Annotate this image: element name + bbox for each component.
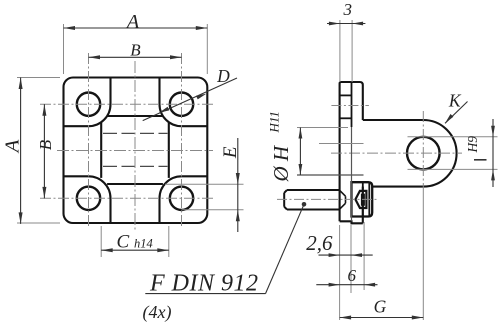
extension 2,6 left [339,225,341,320]
dimension G [340,317,424,319]
hole bottom-left [77,187,100,210]
plate outline [64,78,208,224]
dimension H9 right [492,119,494,187]
svg-text:6: 6 [348,266,357,285]
centerline vertical left hole column [88,53,90,227]
dimension 2,6 [319,254,373,256]
svg-text:3: 3 [342,0,352,19]
boss top-left [64,78,111,127]
extension line A left bottom [17,222,60,224]
svg-text:(4x): (4x) [143,302,172,323]
screw shank [284,190,339,210]
hole bottom-right [170,187,193,210]
leader K [445,102,468,124]
leaf internal vertical (plate back) upper [351,82,353,127]
dimension E [237,138,239,232]
screw head outline [352,182,373,216]
central square top edge [107,115,163,117]
dimension A horizontal [64,27,208,29]
centerline horizontal top hole row [40,103,213,105]
head face line [362,182,364,216]
centerline horizontal middle [57,150,213,152]
boss bottom-left [64,176,111,223]
extension line E top [165,183,244,185]
extension line C left [100,226,102,257]
hidden edge lower (dashed) [103,165,168,167]
hole top-left [77,93,100,116]
dimension OH vertical [299,128,301,176]
extension line A top right [206,24,208,74]
edge line mid leaf [319,143,364,145]
socket inner rect [362,194,365,205]
hidden edge upper (dashed) [103,132,168,134]
extension line A left top [17,77,60,79]
centerline screw axis [277,198,378,200]
centerline lug hole vertical [422,111,424,187]
dimension B horizontal [89,56,182,58]
extension 3 left [339,20,341,82]
lug end arc [423,120,456,187]
svg-text:E: E [220,146,241,159]
top hole bore upper [340,94,352,96]
extension OH top [297,127,348,129]
dimension B vertical [43,104,45,198]
underline F DIN 912 [145,293,265,295]
centerline vertical middle [134,61,136,231]
hole countersink cone [340,190,346,209]
lug bottom edge [372,186,423,188]
extension line C right [168,226,170,257]
extension OH bottom [297,174,364,176]
dimension C [101,249,169,251]
leader F DIN 912 [266,204,305,293]
centerline horizontal bottom hole row [40,197,213,199]
top hole bore lower [340,117,352,119]
lug hole [407,137,440,170]
extension 2,6 right [350,225,352,293]
centerline top hole row side [331,105,369,107]
central square left edge [100,122,102,178]
svg-text:C: C [117,231,130,252]
centerline lug hole horizontal [331,152,462,154]
svg-text:B: B [130,40,141,59]
extension lug hole top tangent [408,136,498,138]
leader D [143,78,237,121]
svg-text:G: G [374,297,387,317]
svg-text:D: D [216,66,230,86]
central square right edge [168,122,170,178]
svg-text:A: A [2,139,24,154]
svg-text:F DIN 912: F DIN 912 [149,271,259,297]
svg-text:H9: H9 [465,136,480,154]
svg-text:B: B [36,139,55,150]
svg-text:Ø H: Ø H [269,144,293,182]
svg-text:H11: H11 [267,111,282,133]
dimension A vertical [20,78,22,224]
boss top-right [160,78,208,127]
centerline vertical right hole column [181,53,183,227]
socket hexagon [355,191,366,208]
extension lug center to G [422,187,424,320]
hole top-right [170,93,193,116]
label H9 tick [474,159,487,161]
leaf outline [340,82,363,221]
svg-text:2,6: 2,6 [306,231,333,255]
leaf right edge lower [362,187,364,224]
central square bottom edge [107,183,163,185]
extension lug hole bottom tangent [408,168,498,170]
extension 6 right [363,222,365,290]
lug top edge [363,119,424,121]
extension line A top left [63,24,65,74]
svg-text:h14: h14 [134,236,153,250]
svg-text:K: K [448,90,462,110]
dimension 3 [327,23,365,25]
boss bottom-right [160,176,208,223]
leaf bottom front [340,221,363,223]
head inner face line [368,182,370,216]
dimension 6 [316,284,377,286]
svg-text:A: A [125,11,140,33]
extension 3 right [351,20,353,82]
extension line E bottom [182,209,244,211]
leaf internal vertical (plate back) lower [351,127,353,221]
